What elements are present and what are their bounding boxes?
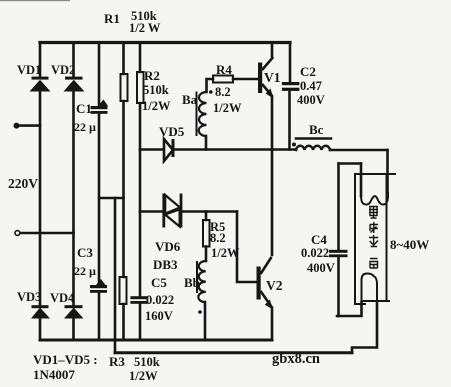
svg-text:220V: 220V [8,176,38,191]
svg-text:400V: 400V [307,261,335,275]
svg-text:C4: C4 [311,232,327,247]
svg-text:R2: R2 [144,68,160,83]
svg-text:C5: C5 [151,275,167,290]
svg-text:1N4007: 1N4007 [33,367,75,382]
svg-text:160V: 160V [145,309,173,323]
svg-text:22 µ: 22 µ [74,264,96,278]
svg-text:510k: 510k [134,355,160,369]
svg-text:Bc: Bc [309,122,324,137]
svg-text:VD1: VD1 [17,63,41,77]
svg-text:0.022: 0.022 [146,293,174,307]
svg-text:C3: C3 [77,245,93,260]
svg-text:8.2: 8.2 [215,85,231,99]
svg-text:R4: R4 [216,62,232,77]
svg-text:C1: C1 [76,101,92,116]
svg-text:VD2: VD2 [51,63,75,77]
svg-text:8~40W: 8~40W [390,237,429,252]
svg-text:R3: R3 [109,354,125,369]
svg-text:1/2 W: 1/2 W [129,21,161,35]
svg-text:1/2W: 1/2W [129,369,158,383]
svg-text:VD1–VD5 :: VD1–VD5 : [33,352,98,367]
svg-text:V2: V2 [266,278,283,293]
svg-text:1/2W: 1/2W [142,99,171,113]
svg-text:1/2W: 1/2W [213,101,242,115]
svg-text:1/2W: 1/2W [211,246,240,260]
svg-text:510k: 510k [143,83,169,97]
svg-text:C2: C2 [300,64,316,79]
svg-text:DB3: DB3 [153,257,178,272]
svg-text:8.2: 8.2 [210,231,226,245]
svg-text:Bb: Bb [184,275,200,290]
svg-text:400V: 400V [297,93,325,107]
svg-text:V1: V1 [264,70,281,85]
svg-text:gbx8.cn: gbx8.cn [272,351,320,367]
svg-text:0.47: 0.47 [300,79,322,93]
svg-text:Ba: Ba [182,92,198,107]
svg-text:VD4: VD4 [50,291,75,305]
svg-text:VD3: VD3 [17,290,41,304]
svg-text:VD6: VD6 [155,239,181,254]
svg-text:0.022: 0.022 [301,246,329,260]
svg-text:VD5: VD5 [159,124,185,139]
svg-text:R1: R1 [104,11,120,26]
svg-text:22 µ: 22 µ [74,120,96,134]
